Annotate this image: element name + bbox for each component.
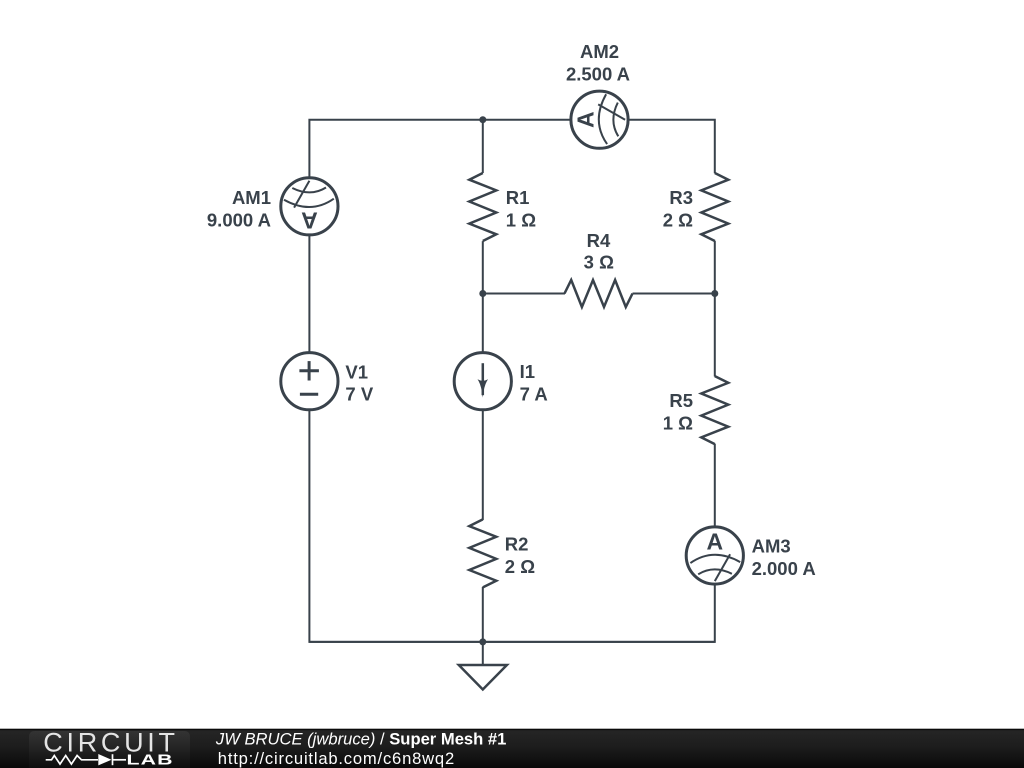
svg-text:http://circuitlab.com/c6n8wq2: http://circuitlab.com/c6n8wq2 <box>218 749 455 768</box>
svg-text:R1: R1 <box>506 187 530 208</box>
footer logo badge <box>29 731 190 768</box>
svg-text:R4: R4 <box>587 230 611 251</box>
svg-text:3 Ω: 3 Ω <box>584 252 614 273</box>
svg-text:AM1: AM1 <box>232 187 271 208</box>
ground symbol <box>459 642 507 690</box>
svg-text:I1: I1 <box>520 361 535 382</box>
wire: outer loop (top net, left rail, bottom ground net, right rail ends) <box>309 120 714 642</box>
svg-text:AM3: AM3 <box>752 535 791 556</box>
svg-text:R5: R5 <box>669 390 693 411</box>
ammeter AM2 <box>571 91 628 148</box>
footer logo resistor-diode glyph <box>46 754 126 765</box>
svg-text:7 V: 7 V <box>345 384 373 405</box>
svg-text:V1: V1 <box>345 361 368 382</box>
junction node: middle right <box>711 290 718 297</box>
svg-text:AM2: AM2 <box>580 41 619 62</box>
junction node: top center <box>479 116 486 123</box>
wire: bottom ground net <box>309 641 714 643</box>
ammeter AM1 <box>281 178 338 235</box>
svg-text:JW BRUCE (jwbruce) / Super Mes: JW BRUCE (jwbruce) / Super Mesh #1 <box>215 730 506 749</box>
junction node: bottom ground <box>479 638 486 645</box>
wire: center rail above R1 <box>482 120 484 173</box>
resistor R2 <box>469 519 496 587</box>
wire: center rail below R2 <box>482 587 484 642</box>
wire: center rail I1 to R2 <box>482 409 484 520</box>
svg-text:1 Ω: 1 Ω <box>506 209 536 230</box>
svg-text:R3: R3 <box>669 187 693 208</box>
svg-text:A: A <box>572 111 598 128</box>
svg-text:1 Ω: 1 Ω <box>663 412 693 433</box>
svg-text:2 Ω: 2 Ω <box>663 209 693 230</box>
junction node: middle left <box>479 290 486 297</box>
svg-text:LAB: LAB <box>127 750 174 767</box>
svg-text:2.000 A: 2.000 A <box>752 558 816 579</box>
current source I1 <box>454 353 511 410</box>
svg-text:7 A: 7 A <box>520 383 548 404</box>
footer bar <box>0 729 1024 768</box>
resistor R5 <box>701 376 728 444</box>
svg-text:A: A <box>301 207 318 233</box>
wire: middle net from R4 to right rail <box>633 293 715 295</box>
voltage source V1 <box>281 353 338 410</box>
wire: middle net from center rail to R4 <box>483 293 565 295</box>
resistor R1 <box>469 173 496 241</box>
wire: center rail R1 to I1 <box>482 241 484 353</box>
svg-text:2.500 A: 2.500 A <box>566 64 630 85</box>
svg-text:A: A <box>706 528 723 554</box>
resistor R3 <box>701 173 728 241</box>
ammeter AM3 <box>686 527 743 584</box>
svg-text:9.000 A: 9.000 A <box>207 209 271 230</box>
svg-text:R2: R2 <box>505 534 529 555</box>
wire: right rail R3 to R5 <box>714 241 716 377</box>
svg-text:2 Ω: 2 Ω <box>505 556 535 577</box>
resistor R4 <box>565 280 633 307</box>
